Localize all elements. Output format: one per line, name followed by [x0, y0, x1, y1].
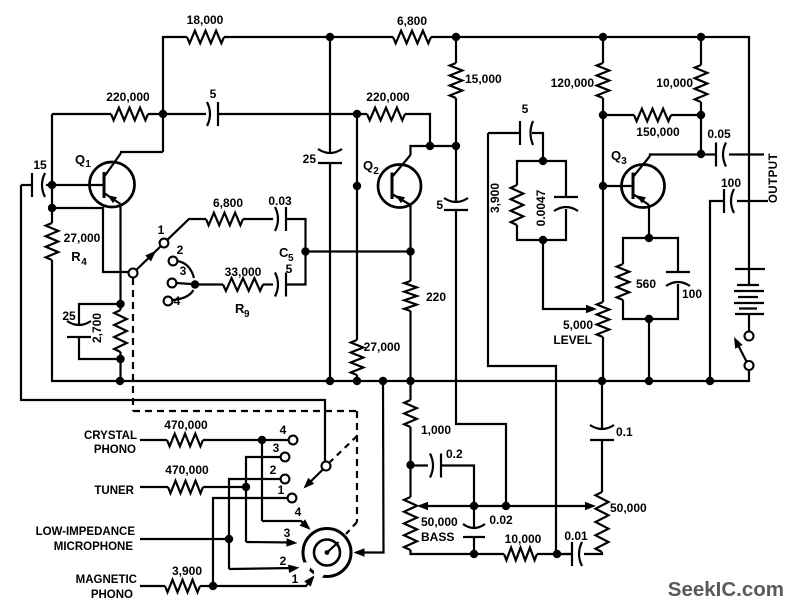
svg-text:1: 1	[158, 223, 165, 237]
svg-text:33,000: 33,000	[225, 265, 262, 279]
svg-text:100: 100	[721, 176, 741, 190]
svg-text:120,000: 120,000	[551, 76, 595, 90]
svg-text:BASS: BASS	[421, 530, 454, 544]
svg-text:1,000: 1,000	[421, 423, 451, 437]
svg-text:100: 100	[682, 287, 702, 301]
svg-text:TUNER: TUNER	[94, 485, 134, 497]
svg-text:2: 2	[177, 243, 184, 257]
svg-text:Q: Q	[611, 148, 621, 163]
svg-text:3,900: 3,900	[488, 183, 502, 213]
svg-text:3,900: 3,900	[172, 564, 202, 578]
svg-text:5,000: 5,000	[563, 318, 593, 332]
svg-text:15: 15	[33, 158, 47, 172]
svg-text:6,800: 6,800	[397, 14, 427, 28]
svg-text:0.02: 0.02	[489, 513, 513, 527]
svg-text:0.0047: 0.0047	[534, 189, 548, 226]
svg-text:4: 4	[280, 423, 287, 437]
svg-text:MAGNETIC: MAGNETIC	[76, 574, 137, 586]
svg-text:0.01: 0.01	[564, 529, 588, 543]
svg-text:PHONO: PHONO	[91, 589, 133, 601]
svg-text:25: 25	[303, 152, 317, 166]
svg-text:6,800: 6,800	[213, 196, 243, 210]
svg-text:50,000: 50,000	[421, 515, 458, 529]
svg-text:PHONO: PHONO	[94, 444, 136, 456]
svg-text:LOW-IMPEDANCE: LOW-IMPEDANCE	[36, 526, 136, 538]
svg-text:1: 1	[292, 572, 299, 586]
svg-text:MICROPHONE: MICROPHONE	[54, 541, 134, 553]
svg-text:5: 5	[210, 87, 217, 101]
svg-text:Q: Q	[75, 152, 85, 167]
svg-text:2: 2	[280, 554, 287, 568]
svg-text:3: 3	[180, 264, 187, 278]
svg-text:4: 4	[174, 294, 181, 308]
svg-text:2: 2	[270, 463, 277, 477]
svg-text:2: 2	[373, 166, 379, 177]
svg-text:4: 4	[295, 505, 302, 519]
svg-text:0.1: 0.1	[616, 425, 633, 439]
svg-text:220: 220	[426, 290, 446, 304]
svg-text:5: 5	[436, 198, 443, 212]
svg-text:27,000: 27,000	[64, 231, 101, 245]
svg-text:9: 9	[244, 309, 250, 320]
svg-text:2,700: 2,700	[90, 313, 104, 343]
svg-text:Q: Q	[363, 158, 373, 173]
svg-text:0.03: 0.03	[268, 194, 292, 208]
svg-text:10,000: 10,000	[656, 76, 693, 90]
svg-text:SeekIC.com: SeekIC.com	[668, 578, 784, 601]
svg-text:3: 3	[284, 526, 291, 540]
svg-text:LEVEL: LEVEL	[553, 333, 592, 347]
svg-text:220,000: 220,000	[366, 90, 410, 104]
svg-text:OUTPUT: OUTPUT	[768, 153, 780, 203]
svg-text:3: 3	[273, 441, 280, 455]
svg-text:470,000: 470,000	[164, 418, 208, 432]
svg-text:4: 4	[81, 257, 87, 268]
svg-text:1: 1	[278, 483, 285, 497]
svg-text:1: 1	[85, 159, 91, 170]
svg-text:5: 5	[522, 102, 529, 116]
svg-text:CRYSTAL: CRYSTAL	[84, 430, 137, 442]
svg-text:3: 3	[621, 156, 627, 167]
svg-text:25: 25	[62, 309, 76, 323]
svg-text:50,000: 50,000	[610, 501, 647, 515]
svg-text:150,000: 150,000	[636, 125, 680, 139]
svg-text:15,000: 15,000	[465, 72, 502, 86]
svg-text:18,000: 18,000	[187, 13, 224, 27]
svg-text:470,000: 470,000	[165, 463, 209, 477]
svg-text:560: 560	[636, 277, 656, 291]
svg-text:220,000: 220,000	[106, 90, 150, 104]
svg-text:10,000: 10,000	[505, 532, 542, 546]
svg-text:5: 5	[286, 262, 293, 276]
svg-text:27,000: 27,000	[364, 340, 401, 354]
svg-text:0.2: 0.2	[446, 447, 463, 461]
svg-text:R: R	[71, 249, 81, 264]
svg-text:0.05: 0.05	[707, 127, 731, 141]
